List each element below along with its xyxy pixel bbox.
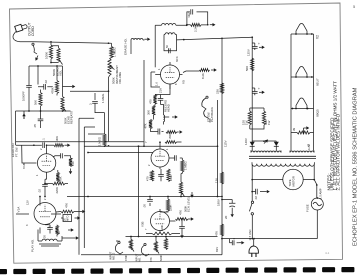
svg-text:FT. SW.: FT. SW. bbox=[14, 147, 18, 157]
shield drain capacitor bbox=[89, 93, 105, 134]
label V3A bbox=[144, 141, 148, 143]
power transformer T2 secondary right bbox=[290, 151, 314, 153]
label V1B bbox=[22, 163, 26, 169]
capacitor .05 v1a bbox=[45, 225, 53, 234]
label .02 echo bbox=[44, 80, 48, 84]
resistor 220K v3a bbox=[167, 169, 173, 182]
wire v3a pins bbox=[159, 141, 173, 169]
wire echo top bbox=[29, 65, 63, 67]
svg-text:82V: 82V bbox=[215, 247, 219, 252]
potentiometer ECHO LEVEL bbox=[179, 174, 184, 198]
resistor loop 2.2K bbox=[187, 23, 208, 26]
potentiometer INSTRUMENT VOLUME 500K bbox=[108, 58, 115, 76]
svg-text:39: 39 bbox=[292, 127, 296, 131]
label INPUT NO. 1 bbox=[135, 253, 142, 262]
label 15K bbox=[71, 161, 75, 166]
label ECHO ON FT SW bbox=[11, 144, 18, 158]
svg-text:620K: 620K bbox=[159, 255, 163, 261]
plate mark bbox=[325, 251, 330, 255]
capacitor 20MFD 90V bbox=[252, 88, 258, 95]
label NE2 bbox=[187, 12, 191, 18]
wire echo drop x38 bbox=[37, 66, 39, 85]
ground v1a plate bbox=[80, 210, 86, 213]
label 22K bbox=[216, 89, 220, 94]
capacitor 1000PF bbox=[26, 66, 32, 111]
capacitor .1 across line bbox=[230, 238, 239, 246]
svg-text:NO. 1: NO. 1 bbox=[138, 254, 142, 262]
pin labels V5 bbox=[158, 68, 178, 85]
ground cap 125V bbox=[247, 42, 265, 56]
svg-text:VOL: VOL bbox=[59, 70, 63, 76]
foot switch jack PLAYBACK bbox=[202, 96, 209, 118]
label .05 v1a bbox=[43, 235, 47, 239]
label 115V bbox=[224, 140, 228, 147]
svg-text:+: + bbox=[258, 87, 260, 91]
ground v3b cap bbox=[180, 233, 183, 239]
ground v3b plate bbox=[188, 217, 194, 220]
svg-text:1 MEG: 1 MEG bbox=[101, 93, 105, 103]
capacitor cathode v3a bbox=[158, 169, 164, 181]
label 12V bbox=[26, 200, 30, 205]
pin labels V3B bbox=[145, 210, 169, 230]
label 500K ECH LEVEL bbox=[184, 196, 191, 212]
label RECORD HEAD bbox=[164, 100, 171, 112]
label 56K bbox=[34, 100, 38, 105]
pin labels V1A bbox=[26, 198, 51, 228]
tube filament V3 heater bbox=[295, 66, 308, 77]
svg-text:6.2V: 6.2V bbox=[307, 144, 311, 150]
ground rectifier bbox=[263, 138, 270, 145]
svg-text:15K: 15K bbox=[71, 161, 75, 166]
label V3B bbox=[141, 221, 145, 227]
svg-text:MOTOR: MOTOR bbox=[291, 176, 295, 186]
svg-text:470K: 470K bbox=[59, 176, 63, 183]
page number mark bbox=[353, 4, 356, 9]
ground 20mfd bbox=[75, 216, 81, 219]
svg-text:.05: .05 bbox=[33, 124, 37, 128]
capacitor .05 v3b bbox=[179, 218, 185, 232]
resistor 470K v1b bbox=[56, 170, 59, 184]
wire rail x138.5 bbox=[138, 145, 140, 236]
label 39 bbox=[292, 127, 296, 131]
vacuum tube V5 6C4 oscillator bbox=[155, 62, 182, 89]
rectifier diode CR1 bbox=[250, 141, 255, 151]
ground 8.2K bbox=[211, 68, 217, 71]
label 180V bbox=[217, 199, 221, 206]
svg-text:4-1: 4-1 bbox=[325, 251, 330, 255]
play head shield bbox=[39, 236, 79, 246]
svg-text:47K: 47K bbox=[149, 257, 153, 262]
svg-text:500: 500 bbox=[245, 66, 249, 71]
capacitor .02 echo bbox=[38, 84, 53, 90]
ground 20MFD bbox=[224, 212, 234, 220]
label 1 MEG mid bbox=[101, 93, 105, 103]
ground record head bbox=[164, 115, 178, 118]
svg-text:21V: 21V bbox=[159, 88, 163, 93]
svg-text:.05: .05 bbox=[43, 235, 47, 239]
svg-text:V5: V5 bbox=[182, 80, 186, 84]
potentiometer ECHO REPEATS 500K bbox=[61, 97, 66, 112]
resistor 39 heater bbox=[291, 131, 314, 134]
svg-text:1 MEG: 1 MEG bbox=[113, 47, 117, 57]
svg-text:FUSE: FUSE bbox=[306, 204, 310, 212]
svg-text:47K: 47K bbox=[179, 210, 183, 215]
label 1 MEG input bbox=[113, 47, 117, 57]
ground line cap bbox=[254, 190, 270, 200]
wire primary right lead bbox=[313, 164, 315, 181]
svg-text:115V: 115V bbox=[224, 140, 228, 147]
tube filament V4 heater bbox=[295, 98, 308, 109]
svg-text:V1B: V1B bbox=[22, 163, 26, 169]
potentiometer ECHO VOL 500K bbox=[57, 48, 63, 65]
ground erase head bbox=[145, 38, 151, 41]
wire heater rung 1 bbox=[291, 33, 314, 35]
wire x222 rail bbox=[221, 38, 223, 238]
svg-text:220K: 220K bbox=[55, 187, 59, 194]
capacitor coupling v3a bbox=[174, 155, 183, 161]
rectifier diode CR2 bbox=[252, 141, 279, 151]
svg-text:PLAYBACK: PLAYBACK bbox=[210, 107, 214, 122]
label 1000PF bbox=[22, 91, 26, 101]
resistor 36K bbox=[147, 106, 156, 116]
label 21V bbox=[159, 88, 163, 93]
wire ftsw down bbox=[210, 100, 218, 197]
svg-text:125V: 125V bbox=[247, 49, 251, 56]
label 150 1W bbox=[242, 120, 249, 125]
feedback loop box bbox=[186, 12, 209, 26]
label 8.2K bbox=[201, 73, 205, 79]
label 30K bbox=[55, 136, 59, 141]
label .05 mid bbox=[143, 204, 147, 208]
svg-text:100K: 100K bbox=[45, 52, 49, 59]
svg-text:2. ALL CAPACITOR VALUES IN MFD: 2. ALL CAPACITOR VALUES IN MFD bbox=[336, 113, 341, 190]
svg-text:36K: 36K bbox=[147, 110, 151, 115]
resistor 800K plate bbox=[165, 141, 182, 144]
resistor 15K v1b bbox=[68, 156, 72, 167]
svg-text:.05: .05 bbox=[143, 204, 147, 208]
oscillator tank box with capacitor bbox=[164, 35, 177, 54]
resistor 47K record bbox=[144, 120, 153, 129]
label FUSE bbox=[306, 204, 310, 212]
svg-text:V3B: V3B bbox=[141, 221, 145, 227]
wire rail x217.5 bbox=[217, 145, 219, 197]
label 47K v1a bbox=[65, 203, 69, 208]
ground echo send jack bbox=[34, 55, 40, 62]
resistor 30K bus bbox=[54, 144, 64, 147]
label 47K input1 bbox=[149, 257, 153, 262]
svg-text:1000PF: 1000PF bbox=[22, 91, 26, 101]
vacuum tube V1B bbox=[37, 154, 55, 172]
svg-text:2.2K: 2.2K bbox=[194, 26, 198, 32]
label 500K INSTRUMENT VOLUME bbox=[112, 65, 123, 84]
svg-text:6BQ5: 6BQ5 bbox=[316, 109, 320, 117]
label 500K ECHO VOL bbox=[52, 67, 63, 76]
vacuum tube V3B bbox=[151, 212, 170, 231]
resistor 620K input bbox=[164, 239, 167, 250]
svg-text:1W: 1W bbox=[245, 120, 249, 125]
capacitor 20MFD 180V bbox=[229, 200, 235, 212]
wire rail x144 bbox=[143, 60, 145, 146]
label pin2 bbox=[39, 148, 43, 150]
resistor 47K v3b bbox=[176, 218, 189, 221]
resistor 150 1W bbox=[248, 108, 252, 129]
notes text block bbox=[327, 81, 341, 191]
label 47K rail bbox=[215, 231, 219, 236]
resistor 500 ohm bbox=[251, 58, 254, 71]
capacitor .02 line bbox=[251, 189, 264, 195]
svg-text:800K: 800K bbox=[168, 132, 172, 139]
label 2.2K bbox=[194, 26, 198, 32]
svg-text:1K: 1K bbox=[57, 231, 61, 234]
wire instvol down bbox=[108, 76, 110, 142]
label 500 bbox=[245, 66, 249, 71]
pin labels V3A bbox=[148, 148, 169, 166]
svg-text:1.5 AMP: 1.5 AMP bbox=[319, 188, 323, 199]
wire inputs up bbox=[131, 237, 166, 242]
label 470K v1b bbox=[59, 176, 63, 183]
svg-text:CORD: CORD bbox=[31, 26, 35, 36]
wire erase down bbox=[130, 40, 132, 54]
svg-text:470: 470 bbox=[146, 176, 150, 181]
wire v3b pins bbox=[160, 209, 176, 234]
resistor 600 record bbox=[166, 131, 177, 134]
wire record section bbox=[151, 84, 171, 132]
power switch S1 bbox=[249, 192, 253, 239]
perforation dashed cut line bbox=[0, 267, 360, 274]
wire left rail x16 bbox=[15, 111, 17, 145]
grid box 1.6 bbox=[151, 72, 160, 87]
label OUTPUT CORD bbox=[28, 22, 36, 36]
svg-text:1 MEG: 1 MEG bbox=[98, 136, 102, 146]
resistor 100K bbox=[49, 42, 52, 59]
svg-text:V1A: V1A bbox=[17, 206, 21, 213]
resistor 1 MEG bus bbox=[88, 134, 106, 146]
svg-text:ECH. LEVEL: ECH. LEVEL bbox=[187, 196, 191, 212]
svg-text:180V: 180V bbox=[217, 199, 221, 206]
label 100K bbox=[45, 52, 49, 59]
ground loop bbox=[210, 23, 216, 26]
wire motor leads bbox=[252, 179, 314, 181]
oscillator coil L2 bbox=[164, 33, 177, 35]
resistor 470K input2 bbox=[129, 240, 134, 252]
label 117 VAC bbox=[248, 229, 252, 240]
svg-text:220K: 220K bbox=[169, 205, 173, 211]
svg-text:220K: 220K bbox=[169, 175, 173, 181]
wire AC bus bbox=[221, 238, 317, 240]
jack echo send J3 bbox=[32, 43, 37, 54]
svg-text:V2: V2 bbox=[316, 35, 320, 39]
wire 20mfd stub bbox=[221, 199, 232, 201]
wire top bus bbox=[33, 41, 112, 44]
resistor 1K v1a bbox=[55, 225, 73, 237]
svg-text:+: + bbox=[258, 42, 260, 46]
capacitor loop NE-2 bbox=[191, 9, 193, 14]
svg-text:NE2: NE2 bbox=[187, 12, 191, 18]
power transformer T2 secondary left bbox=[251, 150, 281, 152]
ground 15K bbox=[69, 169, 72, 175]
label 220K v1b bbox=[55, 187, 59, 194]
label 6C4 bbox=[175, 56, 179, 62]
svg-text:HEAD: HEAD bbox=[167, 104, 171, 112]
label 500K ECHO REPEATS bbox=[64, 111, 74, 124]
resistor 1 MEG v3a bbox=[181, 158, 184, 174]
label V2 bbox=[316, 35, 320, 39]
svg-text:1.6: 1.6 bbox=[155, 82, 159, 86]
label 300 1W bbox=[264, 120, 271, 125]
label 1.5 AMP bbox=[319, 188, 323, 199]
pin labels V1B bbox=[36, 168, 56, 176]
resistor 620K out bbox=[146, 232, 180, 235]
svg-text:.02: .02 bbox=[44, 80, 48, 84]
transformer core bbox=[249, 156, 316, 158]
label V5 bbox=[182, 80, 186, 84]
svg-text:MFD: MFD bbox=[66, 215, 69, 221]
label 800K bbox=[168, 132, 172, 139]
label .1 bus bbox=[42, 138, 46, 141]
shield box outer bbox=[79, 118, 222, 255]
svg-text:470K: 470K bbox=[51, 87, 55, 94]
resistor 8.2K osc cathode bbox=[183, 69, 210, 73]
svg-text:140V: 140V bbox=[244, 138, 248, 145]
capacitor .05 record bbox=[158, 95, 164, 105]
svg-text:ERASE HD.: ERASE HD. bbox=[124, 38, 128, 55]
resistor 47K input1 bbox=[154, 242, 159, 254]
erase head coil bbox=[131, 39, 144, 41]
label INPUT NO. 2 bbox=[109, 251, 116, 260]
svg-text:1 MEG: 1 MEG bbox=[184, 161, 188, 170]
resistor 470 record bbox=[149, 95, 157, 105]
input jack No.2 J1 bbox=[115, 240, 123, 254]
power transformer T2 primary bbox=[252, 162, 314, 166]
title ECHOPLEX EP-1 bbox=[353, 87, 359, 246]
wire osc out bbox=[177, 36, 254, 40]
vacuum tube V1A bbox=[34, 203, 56, 225]
capacitor .02 v1b bbox=[42, 179, 48, 196]
record head coil bbox=[164, 113, 165, 125]
svg-text:12K: 12K bbox=[215, 178, 219, 183]
wire bus y145 left bbox=[16, 142, 54, 148]
fuse F1 bbox=[311, 180, 323, 239]
svg-text:6EU7: 6EU7 bbox=[316, 78, 320, 86]
label ERASE HD. bbox=[124, 38, 128, 55]
wire 220k mid bbox=[160, 196, 169, 212]
label 620K bbox=[160, 225, 164, 231]
label V1A bbox=[17, 206, 21, 213]
ground line cap2 bbox=[239, 241, 245, 244]
wire v3a feed bbox=[87, 152, 153, 154]
arrow echo sw bbox=[22, 111, 25, 119]
svg-text:20: 20 bbox=[224, 215, 228, 219]
wire x252 rail bbox=[251, 37, 253, 141]
resistor 22K rail bbox=[220, 83, 223, 94]
resistor 56K bbox=[39, 90, 42, 112]
label 47K v3b bbox=[179, 210, 183, 215]
resistor 12K bbox=[220, 172, 223, 184]
label .02 v1b bbox=[38, 189, 42, 193]
capacitor 20 MFD box bbox=[61, 215, 72, 222]
wire input bus bbox=[126, 236, 218, 238]
label 6.2V bbox=[307, 144, 311, 150]
resistor 220K mid bbox=[166, 199, 172, 211]
wire heater to winding bbox=[291, 133, 314, 151]
wire bus y146 bbox=[84, 145, 217, 147]
ground heater bias bbox=[304, 126, 310, 132]
label FT. SW. PLAYBACK bbox=[207, 107, 214, 122]
resistor 470 v3a bbox=[146, 171, 154, 182]
resistor 1 MEG input bbox=[110, 43, 113, 57]
svg-text:30K: 30K bbox=[55, 136, 59, 141]
svg-text:470K: 470K bbox=[124, 255, 128, 261]
ground bus 30K bbox=[65, 144, 71, 147]
wire heater rail right bbox=[313, 34, 315, 133]
wire heater rung 2 bbox=[291, 76, 314, 78]
svg-text:VOLUME: VOLUME bbox=[118, 72, 122, 84]
input jack No.1 J2 bbox=[141, 243, 149, 256]
label 6BQ5 bbox=[316, 109, 320, 117]
wire bus y142 bbox=[16, 141, 144, 143]
wire heater rail left bbox=[290, 34, 292, 151]
capacitor coupling v1b plate bbox=[59, 153, 68, 158]
tape motor M1 bbox=[283, 169, 303, 189]
svg-text:117 VAC: 117 VAC bbox=[248, 229, 252, 240]
svg-text:1W: 1W bbox=[267, 120, 271, 125]
output cord plug P1 bbox=[13, 23, 33, 42]
label 140V bbox=[244, 138, 248, 145]
label 470K input2 bbox=[124, 255, 128, 261]
wire bus y109 bbox=[16, 110, 71, 112]
wire primary left lead bbox=[251, 164, 253, 192]
wire y196 bus bbox=[67, 196, 223, 198]
svg-text:.02: .02 bbox=[38, 189, 42, 193]
resistor 470K echo bbox=[51, 81, 59, 95]
svg-text:47K: 47K bbox=[65, 203, 69, 208]
AC power plug P2 bbox=[249, 239, 258, 257]
capacitor .05 mid bbox=[147, 197, 153, 207]
capacitor .1 record bbox=[153, 129, 164, 135]
resistor 47K v1a bbox=[56, 210, 80, 213]
resistor 300 1W bbox=[252, 108, 265, 129]
vacuum tube V3A bbox=[151, 149, 169, 167]
tube filament V2 heater bbox=[295, 23, 308, 34]
svg-text:47K: 47K bbox=[215, 231, 219, 236]
resistor 220K v1b bbox=[53, 182, 69, 185]
ground cap 90V bbox=[258, 87, 265, 94]
label 620K input bbox=[159, 255, 163, 261]
label 47 bbox=[307, 143, 311, 147]
wire v1b pins bbox=[22, 144, 59, 179]
svg-text:12V: 12V bbox=[26, 200, 30, 205]
oscillator coil L1 bbox=[155, 23, 187, 26]
label PLAY HD. bbox=[31, 239, 35, 252]
label 6EU7 bbox=[316, 78, 320, 86]
svg-text:620K: 620K bbox=[160, 225, 164, 231]
ground ech level bbox=[190, 192, 193, 198]
svg-text:22K: 22K bbox=[216, 89, 220, 94]
wire heater rung 3 bbox=[291, 108, 314, 110]
ground record out bbox=[177, 130, 183, 133]
svg-text:NO. 2: NO. 2 bbox=[112, 252, 116, 260]
svg-text:ECHOPLEX EP-1 MODEL NO. 5586 S: ECHOPLEX EP-1 MODEL NO. 5586 SCHEMATIC D… bbox=[353, 87, 359, 246]
svg-text:470: 470 bbox=[149, 99, 153, 104]
wire v1a pins bbox=[16, 196, 61, 234]
svg-text:6C4: 6C4 bbox=[175, 56, 179, 62]
capacitor 20MFD 125V bbox=[252, 43, 258, 50]
shield box inner bbox=[84, 127, 95, 248]
capacitor .05 left bbox=[38, 111, 44, 128]
ground echo cluster bbox=[57, 66, 75, 97]
svg-text:REPEATS: REPEATS bbox=[70, 111, 74, 124]
wire tap left y91 bbox=[70, 90, 109, 92]
